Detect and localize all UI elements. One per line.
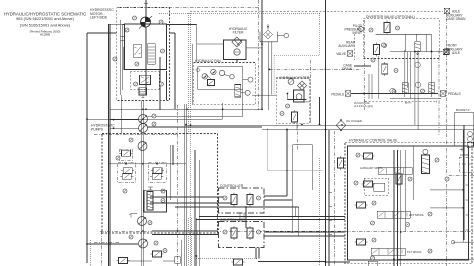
svg-text:963 (S/N 56221/5001 and Above): 963 (S/N 56221/5001 and Above) — [16, 16, 74, 21]
svg-text:HYDRAULIC CONTROL VALVE: HYDRAULIC CONTROL VALVE — [349, 139, 398, 143]
svg-text:LIFT SPOOL: LIFT SPOOL — [409, 213, 425, 217]
svg-text:OIL COOLER: OIL COOLER — [346, 119, 362, 123]
svg-text:CASE DRAIN: CASE DRAIN — [446, 17, 466, 21]
svg-text:AUXILIARY SPOOL: AUXILIARY SPOOL — [360, 166, 384, 170]
svg-text:TILT SPOOL: TILT SPOOL — [407, 250, 422, 254]
svg-text:HYDRAULIC FAN: HYDRAULIC FAN — [195, 59, 221, 63]
svg-text:AXLE: AXLE — [452, 51, 460, 55]
svg-text:VALVE: VALVE — [336, 52, 346, 56]
svg-text:DRAIN: DRAIN — [342, 67, 353, 71]
svg-text:FILTER: FILTER — [233, 31, 244, 35]
svg-text:BUCKET P.: BUCKET P. — [456, 108, 470, 112]
svg-text:LEFT-SIDE: LEFT-SIDE — [90, 16, 108, 20]
svg-text:AE RC: AE RC — [405, 102, 412, 105]
svg-text:(4.4-4.9 U.S. gpm): (4.4-4.9 U.S. gpm) — [354, 106, 373, 108]
svg-text:16.5-18.6 L/min: 16.5-18.6 L/min — [354, 103, 371, 105]
svg-text:(S/N 5165/15001 and Above): (S/N 5165/15001 and Above) — [20, 22, 71, 27]
svg-text:CONTROLLER: CONTROLLER — [220, 184, 244, 188]
svg-text:HC2886: HC2886 — [40, 33, 51, 37]
svg-text:PEDALS: PEDALS — [448, 92, 461, 96]
svg-text:PEDALS: PEDALS — [331, 93, 344, 97]
svg-text:CONTR.: CONTR. — [460, 154, 470, 157]
svg-text:PUMPS: PUMPS — [91, 127, 104, 131]
svg-text:AUXILIARY: AUXILIARY — [338, 44, 355, 48]
svg-text:DIVERTER VALVE (OPTIONAL): DIVERTER VALVE (OPTIONAL) — [366, 15, 415, 19]
